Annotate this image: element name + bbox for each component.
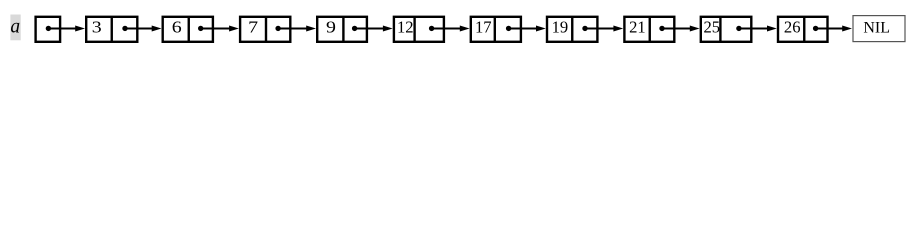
arrow to node 7	[201, 26, 239, 32]
head pointer dot	[46, 26, 51, 31]
node 12 box	[394, 17, 444, 42]
svg-text:6: 6	[172, 18, 182, 36]
node 17 divider	[494, 17, 496, 42]
arrow to node 19	[509, 26, 546, 32]
node 7 pointer dot	[275, 26, 280, 31]
svg-text:9: 9	[326, 18, 336, 36]
node 17 pointer dot	[506, 26, 511, 31]
NIL box	[853, 16, 905, 42]
node 3 pointer dot	[122, 26, 127, 31]
node 6 box	[163, 17, 213, 42]
node 19 divider	[571, 17, 573, 42]
node 21 pointer dot	[659, 26, 664, 31]
arrow to node 3	[48, 26, 85, 32]
svg-text:25: 25	[704, 18, 721, 37]
arrow to node 9	[278, 26, 316, 32]
arrow to node 26	[739, 26, 777, 32]
node 26 pointer dot	[813, 26, 818, 31]
node 3 box	[86, 17, 137, 42]
svg-text:a: a	[10, 17, 20, 38]
arrow to node 6	[125, 26, 162, 32]
svg-text:7: 7	[248, 18, 258, 36]
label a highlight	[10, 15, 20, 41]
node 12 divider	[413, 17, 415, 42]
node 26 divider	[803, 17, 805, 42]
node 6 pointer dot	[198, 26, 203, 31]
arrow to node 21	[585, 26, 623, 32]
arrow to node 25	[662, 26, 700, 32]
node 9 box	[317, 17, 367, 42]
node 7 divider	[265, 17, 267, 42]
node 26 box	[778, 17, 828, 42]
node 25 divider	[719, 17, 721, 42]
svg-text:3: 3	[92, 18, 102, 36]
node 3 divider	[111, 17, 113, 42]
arrow to node 12	[355, 26, 393, 32]
label a	[10, 17, 20, 38]
svg-text:19: 19	[552, 18, 569, 37]
svg-text:12: 12	[397, 18, 414, 37]
node 17 box	[471, 17, 521, 42]
node 6 divider	[188, 17, 190, 42]
node 12 pointer dot	[429, 26, 434, 31]
node 25 box	[701, 17, 752, 42]
head node box	[36, 17, 61, 42]
svg-text:26: 26	[784, 18, 801, 37]
svg-text:NIL: NIL	[863, 20, 890, 37]
node 25 pointer dot	[736, 26, 741, 31]
node 21 box	[624, 17, 674, 42]
node 19 box	[547, 17, 597, 42]
node 7 box	[240, 17, 290, 42]
node 9 pointer dot	[352, 26, 357, 31]
node 21 divider	[649, 17, 651, 42]
arrow to NIL	[816, 26, 852, 32]
node 9 divider	[342, 17, 344, 42]
svg-text:17: 17	[475, 18, 492, 37]
arrow to node 17	[432, 26, 470, 32]
node 19 pointer dot	[582, 26, 587, 31]
svg-text:21: 21	[629, 18, 646, 37]
